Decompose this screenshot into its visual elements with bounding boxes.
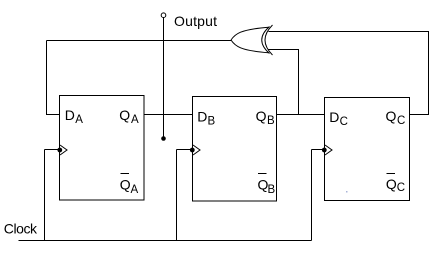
wire: QA to DB xyxy=(144,114,193,116)
svg-text:D: D xyxy=(65,107,75,123)
svg-text:C: C xyxy=(397,115,405,127)
wire: clock stub to FF C xyxy=(312,149,326,151)
svg-text:A: A xyxy=(131,184,139,196)
node: junction dot below QA wire xyxy=(161,136,166,141)
wire: left feedback vertical down to DA input xyxy=(46,41,48,116)
wire: clock stub to FF A xyxy=(45,149,61,151)
svg-text:C: C xyxy=(397,182,405,194)
clock edge triangle FF A xyxy=(60,145,67,155)
node: clock pin dot FF B xyxy=(190,148,195,153)
wire: QB to DC xyxy=(277,114,325,116)
flip-flop U1 (A) body xyxy=(60,96,145,201)
xor gate U4 body (pointing left) xyxy=(231,27,269,40)
svg-text:A: A xyxy=(131,114,139,126)
wire: XOR top input horizontal from QC feedback xyxy=(269,31,430,33)
flip-flop U2 (B) body xyxy=(193,97,277,202)
node: clock pin dot FF C xyxy=(322,148,327,153)
xor gate U4 extra input arc xyxy=(265,25,273,55)
svg-text:A: A xyxy=(75,114,83,126)
wire: XOR bottom input horizontal xyxy=(269,49,300,51)
wire: clock vertical to FF B xyxy=(176,150,178,241)
svg-text:Q: Q xyxy=(120,176,131,192)
svg-text:Q: Q xyxy=(386,176,397,192)
svg-text:C: C xyxy=(340,116,348,128)
wire: XOR bottom input tap vertical from QB-DC wire xyxy=(298,50,300,115)
svg-text:D: D xyxy=(329,109,339,125)
wire: clock rail horizontal xyxy=(19,240,312,242)
svg-text:Q: Q xyxy=(256,108,267,124)
stray speck near QC-bar xyxy=(346,191,348,193)
wire: DA input stub xyxy=(47,114,61,116)
svg-text:D: D xyxy=(197,108,207,124)
wire: clock stub to FF B xyxy=(177,149,194,151)
wire: clock vertical to FF C xyxy=(311,150,313,241)
pin label QA-bar overline xyxy=(121,173,130,175)
flip-flop U3 (C) body xyxy=(325,98,410,201)
wire: output vertical xyxy=(163,18,165,139)
svg-text:Q: Q xyxy=(119,107,130,123)
svg-text:B: B xyxy=(267,115,275,127)
node: output terminal circle xyxy=(161,13,166,18)
svg-text:B: B xyxy=(268,184,276,196)
clock edge triangle FF C xyxy=(325,145,332,155)
svg-text:Output: Output xyxy=(174,13,217,29)
clock edge triangle FF B xyxy=(193,145,200,155)
wire: right feedback vertical from QC xyxy=(428,32,430,116)
svg-text:Q: Q xyxy=(386,108,397,124)
svg-text:B: B xyxy=(208,116,216,128)
svg-text:Clock: Clock xyxy=(4,221,38,237)
wire: clock vertical to FF A xyxy=(44,150,46,241)
wire: QC output stub xyxy=(410,114,429,116)
wire: top feedback horizontal from left corner to XOR output tip xyxy=(47,40,232,42)
pin label QB-bar overline xyxy=(258,173,267,175)
pin label QC-bar overline xyxy=(387,173,396,175)
node: clock pin dot FF A xyxy=(57,148,62,153)
